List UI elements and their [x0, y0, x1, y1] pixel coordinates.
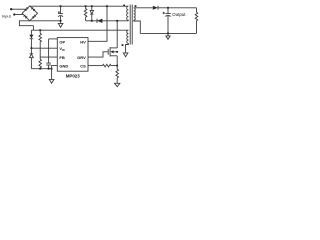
- wire ground return jog: [19, 21, 33, 30]
- transformer T1 secondary winding: [134, 8, 136, 20]
- node snubber C top: [91, 5, 93, 7]
- ground primary bus: [58, 21, 63, 27]
- svg-text:CS: CS: [80, 63, 86, 68]
- ground IC: [49, 79, 54, 83]
- node bus R6: [39, 68, 41, 70]
- wire VIN line: [31, 47, 57, 49]
- ground aux: [123, 53, 128, 57]
- resistor R6 FB lower: [39, 57, 42, 69]
- wire bridge lower rail: [30, 20, 61, 22]
- wire input bottom: [15, 14, 24, 16]
- bridge rectifier BR1: [22, 6, 37, 21]
- resistor R4 sense: [116, 66, 119, 84]
- node snubber R top: [85, 5, 87, 7]
- diode D2 aux: [29, 30, 33, 48]
- diode D3 output: [153, 6, 158, 10]
- zener Z1 VIN clamp: [30, 48, 34, 68]
- svg-text:HV: HV: [80, 39, 86, 44]
- wire aux bottom: [126, 43, 129, 53]
- wire secondary top: [134, 7, 153, 9]
- capacitor C3 OP: [46, 39, 51, 69]
- diode D1 clamp: [97, 19, 102, 23]
- transformer T1 primary winding: [127, 6, 129, 21]
- wire drain vertical: [116, 21, 118, 48]
- svg-text:Output: Output: [172, 12, 186, 17]
- resistor R7 load: [195, 8, 198, 34]
- wire top DC rail: [30, 5, 129, 7]
- node bus C3: [48, 68, 50, 70]
- resistor R5 FB upper: [39, 30, 42, 57]
- node secondary dot: [135, 5, 137, 7]
- wire GND pin: [52, 66, 58, 80]
- node output cap top: [167, 7, 169, 9]
- ground output: [166, 33, 170, 39]
- svg-text:MP023: MP023: [66, 74, 80, 79]
- wire clamp line: [86, 20, 98, 22]
- wire aux ground rail: [31, 29, 128, 31]
- ground sense: [115, 83, 120, 86]
- node bulk cap bottom: [60, 20, 62, 22]
- node primary dot: [123, 5, 125, 7]
- op-amp U1 MP023 body: [57, 38, 88, 72]
- input terminal circles: [10, 8, 12, 10]
- diode D4 snubber: [90, 6, 93, 21]
- wire input top: [12, 8, 27, 10]
- svg-text:FB: FB: [59, 55, 64, 60]
- wire HV riser: [88, 6, 107, 41]
- capacitor C1 bulk: [58, 6, 63, 21]
- node aux dot: [122, 44, 124, 46]
- svg-text:GND: GND: [59, 63, 68, 68]
- wire OP line: [49, 38, 58, 40]
- node output cap bottom: [167, 33, 169, 35]
- node HV rail: [106, 5, 108, 7]
- transistor Q1 MOSFET: [108, 47, 117, 56]
- svg-text:OP: OP: [59, 39, 65, 44]
- transformer T1 core: [129, 5, 131, 45]
- node FB divider top: [39, 29, 41, 31]
- wire DRV to gate: [88, 52, 108, 57]
- resistor R1 snubber: [84, 6, 87, 21]
- node bulk cap top: [60, 5, 62, 7]
- node bus GND drop: [51, 68, 53, 70]
- node VIN branch: [31, 47, 33, 49]
- svg-text:Input: Input: [2, 14, 12, 19]
- wire clamp to drain node: [102, 20, 128, 22]
- node body-source junction: [116, 51, 118, 53]
- wire output top rail: [158, 7, 197, 9]
- wire secondary bottom: [134, 20, 141, 33]
- wire FB line: [40, 56, 57, 58]
- resistor R3 CS: [103, 64, 118, 67]
- svg-text:DRV: DRV: [77, 55, 86, 60]
- node snubber diode bottom: [91, 20, 93, 22]
- node CS source: [116, 65, 118, 67]
- capacitor C4 output: [163, 8, 171, 34]
- wire source: [116, 56, 118, 66]
- transformer T1 aux winding: [127, 30, 129, 43]
- node drain junction: [116, 20, 118, 22]
- wire output bottom rail: [140, 32, 196, 34]
- wire ground bus: [31, 68, 51, 70]
- wire CS line: [88, 65, 103, 67]
